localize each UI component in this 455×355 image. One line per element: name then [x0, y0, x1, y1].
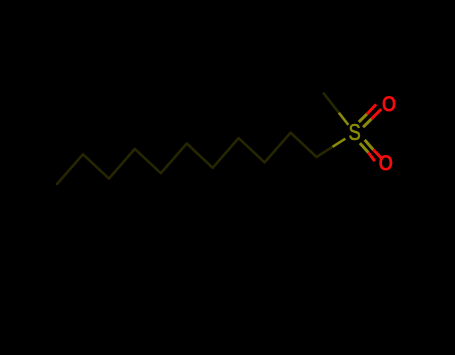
double bond S=O top line2 (S half): [363, 119, 371, 127]
double bond S=O top line2 (O half): [371, 109, 381, 119]
double bond S=O top line1 (S half): [359, 114, 367, 122]
atom O bottom (oxygen): [379, 151, 394, 176]
bond C11-S carbon half: [317, 147, 333, 157]
bond S-CH3 carbon half: [323, 93, 339, 113]
double bond S=O bottom line2 (S half): [365, 140, 374, 150]
double bond S=O bottom line1 (O half): [368, 153, 375, 162]
atom S (sulfur): [348, 120, 360, 145]
double bond S=O bottom line1 (S half): [360, 143, 368, 152]
wire: alkyl chain zigzag C1-C11: [57, 133, 317, 184]
svg-text:O: O: [379, 151, 394, 176]
atom O top (oxygen): [382, 92, 397, 117]
svg-text:S: S: [348, 120, 360, 145]
double bond S=O top line1 (O half): [367, 104, 376, 114]
bond S-CH3 sulfur half: [339, 113, 349, 125]
bond C11-S sulfur half: [333, 139, 346, 147]
double bond S=O bottom line2 (O half): [373, 150, 382, 159]
svg-text:O: O: [382, 92, 397, 117]
